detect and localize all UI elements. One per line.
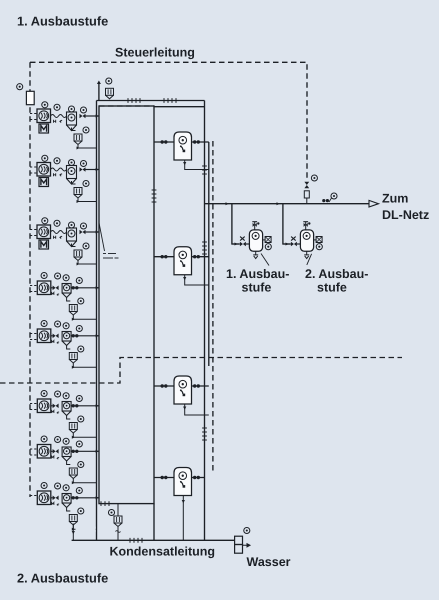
svg-text:1. Ausbau-: 1. Ausbau- [226,267,289,281]
svg-text:stufe: stufe [242,281,272,295]
svg-text:Zum: Zum [382,192,408,206]
svg-text:2. Ausbaustufe: 2. Ausbaustufe [17,571,108,586]
svg-text:2. Ausbau-: 2. Ausbau- [305,267,368,281]
svg-text:Kondensatleitung: Kondensatleitung [110,545,216,559]
svg-text:stufe: stufe [317,281,347,295]
svg-text:Steuerleitung: Steuerleitung [115,46,195,60]
svg-text:DL-Netz: DL-Netz [382,208,429,222]
svg-text:1. Ausbaustufe: 1. Ausbaustufe [17,14,108,29]
svg-text:Wasser: Wasser [247,555,291,569]
